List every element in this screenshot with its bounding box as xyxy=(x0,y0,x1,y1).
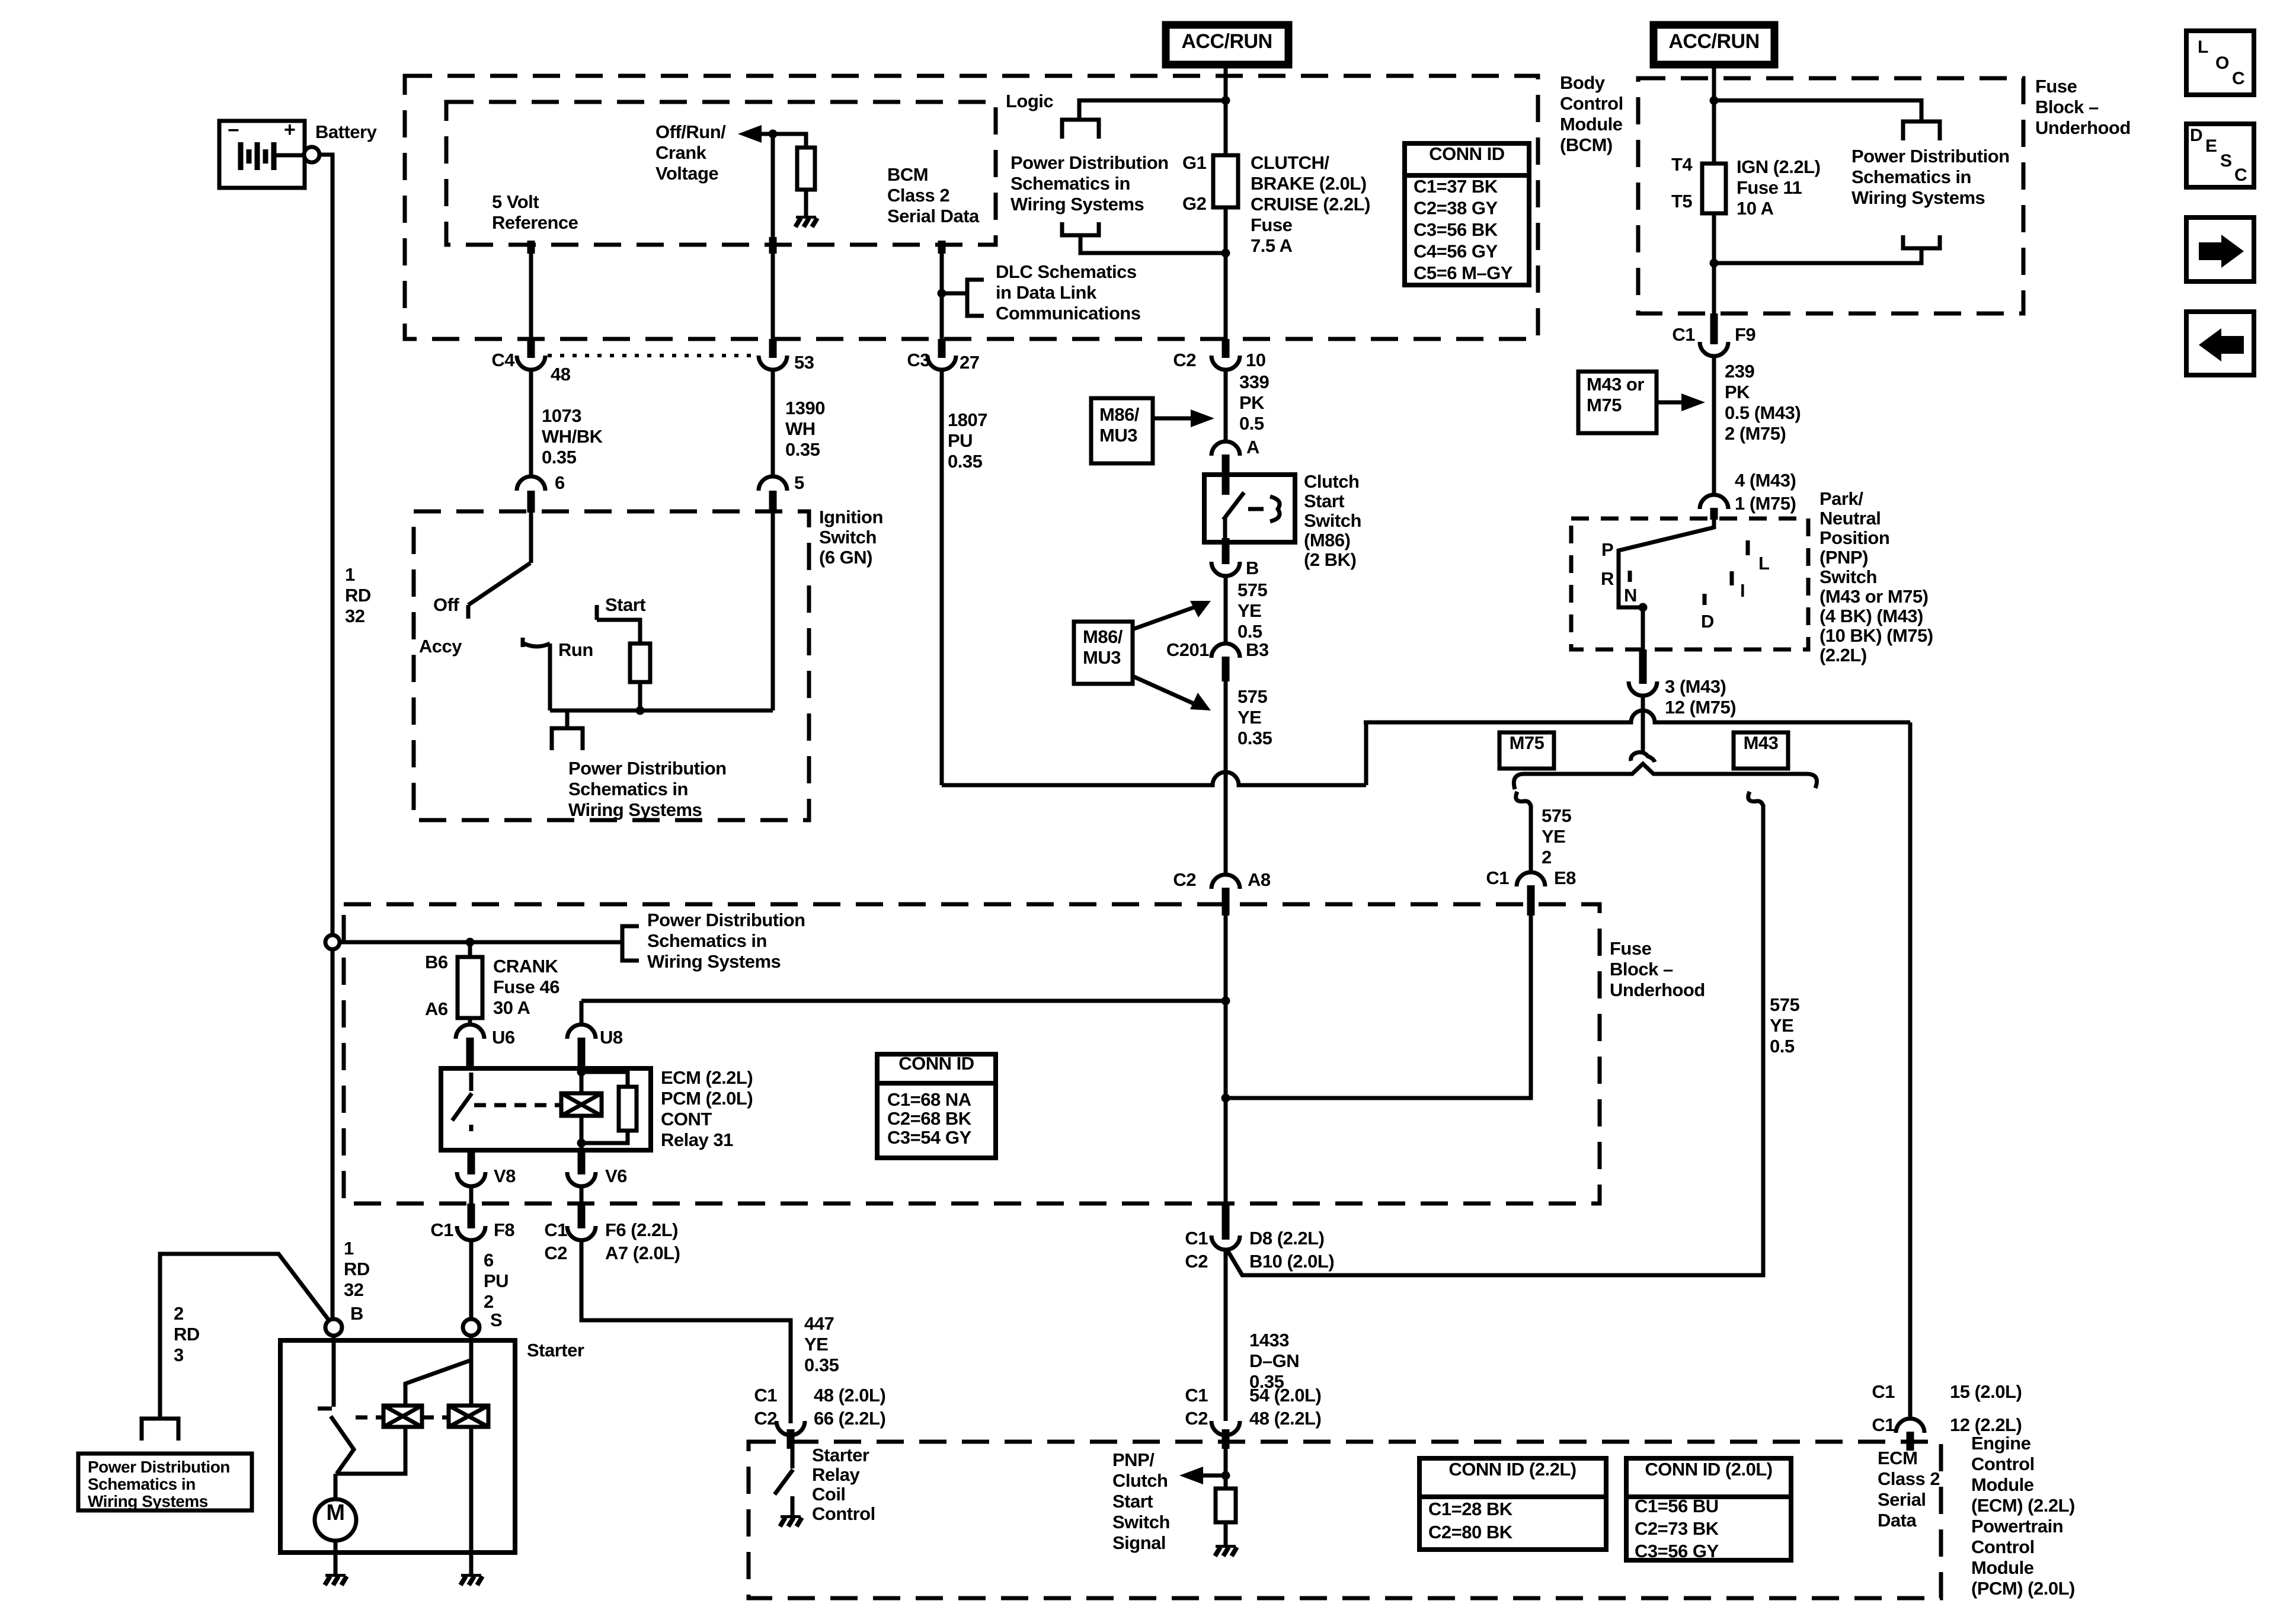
svg-text:Wiring Systems: Wiring Systems xyxy=(568,799,702,820)
box ignition switch (dashed) xyxy=(414,511,809,820)
ignition Run wire xyxy=(548,644,552,710)
svg-text:C1=68 NA: C1=68 NA xyxy=(887,1089,971,1110)
svg-text:0.35: 0.35 xyxy=(542,447,577,468)
svg-text:B: B xyxy=(350,1303,363,1324)
ground pnp signal xyxy=(1216,1545,1236,1548)
svg-text:Fuse: Fuse xyxy=(2035,76,2077,97)
svg-text:Voltage: Voltage xyxy=(655,163,718,184)
svg-text:O: O xyxy=(2215,53,2229,73)
svg-text:B6: B6 xyxy=(425,952,448,972)
connector C201-B3 xyxy=(1211,644,1240,658)
junction dot relay coil bottom xyxy=(577,1139,586,1148)
svg-text:YE: YE xyxy=(1237,600,1261,621)
box fuse block underhood top-right (dashed) xyxy=(1638,78,2023,313)
svg-text:54 (2.0L): 54 (2.0L) xyxy=(1249,1385,1321,1406)
starter relay coil contact wire xyxy=(791,1496,795,1516)
svg-text:C4=56 GY: C4=56 GY xyxy=(1414,241,1498,262)
svg-text:Fuse 46: Fuse 46 xyxy=(493,977,559,997)
wire 2 RD 3 branch xyxy=(160,1254,331,1419)
svg-text:YE: YE xyxy=(804,1334,828,1355)
ignition Accy contact xyxy=(521,638,525,647)
svg-text:Fuse 11: Fuse 11 xyxy=(1737,177,1802,198)
wire ACC/RUN to fuse G1 xyxy=(1224,65,1228,155)
connector C3-27 xyxy=(938,339,946,358)
svg-text:Power Distribution: Power Distribution xyxy=(1011,152,1169,173)
svg-text:G2: G2 xyxy=(1182,193,1206,214)
svg-text:A8: A8 xyxy=(1248,869,1271,890)
connector B xyxy=(1222,538,1230,564)
svg-text:B3: B3 xyxy=(1246,639,1269,660)
svg-text:Reference: Reference xyxy=(492,212,578,233)
svg-text:M: M xyxy=(326,1500,344,1525)
svg-text:WH: WH xyxy=(785,418,816,439)
wire 1807 PU xyxy=(940,370,944,785)
svg-text:10 A: 10 A xyxy=(1737,198,1773,219)
table CONN ID middle xyxy=(877,1054,996,1158)
svg-text:1073: 1073 xyxy=(542,405,581,426)
tag M86/MU3 upper xyxy=(1091,398,1153,463)
battery terminal circle xyxy=(304,147,319,162)
svg-text:Schematics in: Schematics in xyxy=(1011,173,1130,194)
svg-text:MU3: MU3 xyxy=(1083,647,1121,668)
wire 447 YE to starter relay coil xyxy=(581,1240,791,1423)
svg-text:575: 575 xyxy=(1770,994,1799,1015)
junction dot below IGN fuse xyxy=(1710,259,1719,268)
svg-text:6: 6 xyxy=(555,472,565,493)
svg-text:Starter: Starter xyxy=(812,1445,869,1465)
table CONN ID top-right xyxy=(1405,143,1529,285)
connector C1-F9 xyxy=(1710,313,1718,344)
svg-text:Control: Control xyxy=(1971,1454,2035,1474)
svg-text:Engine: Engine xyxy=(1971,1433,2031,1454)
svg-text:1433: 1433 xyxy=(1249,1330,1289,1350)
svg-text:32: 32 xyxy=(344,1279,363,1300)
starter switch contact tick xyxy=(318,1407,332,1411)
relay K1 ECM/PCM CONT Relay 31 box xyxy=(441,1068,651,1150)
svg-text:Starter: Starter xyxy=(527,1340,584,1361)
box 5-volt-reference / BCM internals (dashed) xyxy=(446,102,996,245)
svg-text:(PNP): (PNP) xyxy=(1819,547,1868,568)
relay switch pole xyxy=(469,1073,474,1091)
wire 1390 WH xyxy=(771,370,775,476)
svg-text:0.5: 0.5 xyxy=(1239,413,1264,434)
svg-text:C1: C1 xyxy=(1486,868,1509,888)
svg-text:YE: YE xyxy=(1542,826,1565,847)
curl M43 branch start xyxy=(1748,792,1763,806)
ground starter relay coil xyxy=(781,1515,801,1518)
svg-text:Switch: Switch xyxy=(819,527,877,548)
svg-text:in Data Link: in Data Link xyxy=(996,282,1097,303)
svg-text:Fuse: Fuse xyxy=(1251,215,1293,235)
svg-text:PK: PK xyxy=(1725,382,1750,402)
svg-text:12 (2.2L): 12 (2.2L) xyxy=(1950,1414,2022,1435)
svg-text:T4: T4 xyxy=(1671,154,1693,175)
svg-text:S: S xyxy=(2220,151,2232,171)
wire V6 down xyxy=(580,1186,584,1210)
relay switch blade xyxy=(452,1093,472,1121)
svg-text:Start: Start xyxy=(1304,491,1344,511)
svg-text:D–GN: D–GN xyxy=(1249,1350,1299,1371)
connector 5 xyxy=(759,476,787,491)
svg-text:CONN ID: CONN ID xyxy=(1429,143,1505,164)
wire V8 down xyxy=(469,1186,474,1210)
wire crank fuse to U6 xyxy=(468,1018,472,1025)
svg-text:0.35: 0.35 xyxy=(804,1355,839,1375)
svg-text:C2: C2 xyxy=(544,1243,567,1263)
resistor pnp signal pulldown xyxy=(1216,1489,1236,1522)
wire end curl option split xyxy=(1631,753,1655,762)
terminal circle S xyxy=(463,1319,479,1336)
switch clutch start (M86) box xyxy=(1204,475,1295,542)
arrow to off/run/crank voltage xyxy=(738,125,762,143)
starter dashes blade-coil xyxy=(356,1416,383,1420)
svg-text:Block –: Block – xyxy=(2035,97,2099,117)
starter relay coil switch wire xyxy=(791,1449,795,1468)
svg-text:L: L xyxy=(2198,37,2208,57)
bracket power distribution top (IGN fuse) xyxy=(1903,121,1940,140)
svg-text:V8: V8 xyxy=(494,1166,516,1186)
tag M75 xyxy=(1499,732,1554,769)
wire 239 PK xyxy=(1712,356,1716,495)
svg-text:+: + xyxy=(284,119,295,141)
bracket power distribution bottom (IGN fuse) xyxy=(1903,235,1940,248)
svg-text:PU: PU xyxy=(484,1270,509,1291)
svg-text:Block –: Block – xyxy=(1610,959,1673,980)
box fuse block underhood middle (dashed) xyxy=(344,904,1600,1204)
wire ignition output bus xyxy=(550,709,773,713)
starter motor M xyxy=(315,1499,356,1541)
starter relay coil switch blade xyxy=(775,1470,793,1494)
svg-text:Run: Run xyxy=(558,639,593,660)
svg-text:Schematics in: Schematics in xyxy=(568,779,688,799)
junction dot DLC branch xyxy=(938,289,946,298)
wire crank feed splice xyxy=(340,940,622,945)
svg-text:Schematics in: Schematics in xyxy=(647,930,767,951)
svg-text:C3=56 GY: C3=56 GY xyxy=(1635,1541,1719,1561)
svg-text:Control: Control xyxy=(1971,1537,2035,1557)
svg-text:D8 (2.2L): D8 (2.2L) xyxy=(1249,1228,1324,1249)
wire power distribution return to fuse xyxy=(1080,235,1226,253)
svg-text:Body: Body xyxy=(1560,72,1606,93)
svg-text:C3=56 BK: C3=56 BK xyxy=(1414,219,1498,240)
svg-text:Coil: Coil xyxy=(812,1484,846,1505)
svg-text:C4: C4 xyxy=(491,350,515,370)
svg-text:A: A xyxy=(1246,437,1259,457)
arrow pnp signal xyxy=(1187,1474,1226,1478)
starter switch blade xyxy=(331,1416,354,1474)
pnp contact tick I xyxy=(1730,571,1734,585)
wire fuse to C2-10 xyxy=(1224,207,1228,339)
svg-text:C5=6 M–GY: C5=6 M–GY xyxy=(1414,263,1513,283)
wire class2 bus to right (hop over pnp wire) xyxy=(1364,710,1910,722)
svg-text:3: 3 xyxy=(174,1345,184,1365)
svg-text:T5: T5 xyxy=(1671,191,1692,212)
fuse F2 IGN 10A xyxy=(1702,164,1726,213)
dotted fuse-block line C4-53 xyxy=(548,354,759,357)
wire DLC branch xyxy=(942,292,967,296)
connector C1C2 D8/B10 xyxy=(1222,1204,1230,1240)
ignition switch pole wire xyxy=(529,513,533,563)
svg-text:YE: YE xyxy=(1237,707,1261,728)
bracket power distribution (battery cable) xyxy=(142,1419,178,1441)
svg-text:Module: Module xyxy=(1971,1557,2034,1578)
svg-text:575: 575 xyxy=(1237,580,1267,600)
svg-text:P: P xyxy=(1601,539,1613,560)
svg-text:C2=68 BK: C2=68 BK xyxy=(887,1108,972,1129)
svg-text:S: S xyxy=(490,1310,502,1330)
svg-text:B10 (2.0L): B10 (2.0L) xyxy=(1249,1251,1334,1272)
wire IGN fuse to C1-F9 xyxy=(1712,213,1716,313)
junction dot right logic feed xyxy=(1710,96,1719,105)
pnp switch wire and wiper xyxy=(1619,520,1714,607)
svg-text:447: 447 xyxy=(804,1313,834,1334)
svg-text:C3=54 GY: C3=54 GY xyxy=(887,1127,971,1148)
svg-text:C1: C1 xyxy=(1872,1414,1895,1435)
curl M75 branch start xyxy=(1516,792,1531,806)
junction dot E8 branch xyxy=(1221,1094,1230,1103)
wire BCM class2 serial xyxy=(938,241,946,254)
ignition Accy-Run arc xyxy=(524,644,550,646)
box power distribution schematics (solid) xyxy=(78,1454,252,1510)
svg-text:27: 27 xyxy=(960,352,979,373)
svg-text:Relay: Relay xyxy=(812,1464,860,1485)
connector C1C2-F6A7 xyxy=(578,1204,586,1228)
wire pnp clutch start switch signal xyxy=(1224,1449,1228,1489)
connector U8 xyxy=(567,1025,596,1039)
table CONN ID (2.0L) xyxy=(1626,1458,1791,1560)
wire main inside fuse block xyxy=(1224,916,1228,1204)
clutch switch blade xyxy=(1223,492,1244,520)
svg-text:PCM (2.0L): PCM (2.0L) xyxy=(661,1088,753,1109)
svg-text:Fuse: Fuse xyxy=(1610,938,1652,959)
svg-text:30 A: 30 A xyxy=(493,997,530,1018)
tag M43 xyxy=(1734,732,1788,769)
svg-text:Module: Module xyxy=(1971,1474,2034,1495)
battery B1 xyxy=(219,121,305,188)
svg-text:C2: C2 xyxy=(1173,869,1196,890)
svg-text:(2.2L): (2.2L) xyxy=(1819,645,1867,665)
table CONN ID (2.2L) xyxy=(1419,1458,1606,1550)
connector 3(M43) 12(M75) xyxy=(1639,649,1647,684)
svg-text:C2=38 GY: C2=38 GY xyxy=(1414,198,1498,219)
arrow M86/MU3 down xyxy=(1133,676,1197,705)
bracket power distribution bottom (clutch fuse) xyxy=(1062,222,1099,235)
svg-text:RD: RD xyxy=(345,585,371,606)
wire relay resistor top xyxy=(581,1072,628,1087)
wire pnp resistor to ground xyxy=(1224,1522,1228,1545)
wire bus up-step xyxy=(1364,722,1368,785)
svg-text:U8: U8 xyxy=(600,1027,623,1048)
svg-text:ECM: ECM xyxy=(1878,1448,1917,1468)
tag M43 or M75 xyxy=(1578,372,1657,433)
svg-text:ACC/RUN: ACC/RUN xyxy=(1181,30,1272,53)
module box BCM (dashed) xyxy=(405,76,1538,339)
svg-text:CONN ID: CONN ID xyxy=(898,1053,974,1074)
wire to power distribution bracket right xyxy=(1714,101,1921,122)
svg-text:PU: PU xyxy=(948,430,973,451)
svg-text:Serial: Serial xyxy=(1878,1489,1926,1510)
starter solenoid branch xyxy=(405,1361,470,1406)
svg-text:M43: M43 xyxy=(1744,732,1779,753)
svg-text:C2: C2 xyxy=(1185,1408,1208,1429)
svg-text:Off: Off xyxy=(433,594,459,615)
svg-text:48 (2.2L): 48 (2.2L) xyxy=(1249,1408,1321,1429)
clutch switch pole stub xyxy=(1222,475,1230,495)
svg-text:F6 (2.2L): F6 (2.2L) xyxy=(605,1219,678,1240)
ignition switch blade xyxy=(468,563,530,605)
junction dot logic feed xyxy=(1221,96,1230,105)
svg-text:CRANK: CRANK xyxy=(493,956,559,977)
fuse F1 CLUTCH/BRAKE/CRUISE 7.5A xyxy=(1213,155,1238,207)
svg-text:2: 2 xyxy=(174,1303,184,1324)
svg-text:Wiring Systems: Wiring Systems xyxy=(647,951,781,972)
wire battery positive to starter B xyxy=(319,155,332,935)
svg-text:(10 BK) (M75): (10 BK) (M75) xyxy=(1819,625,1933,646)
ground starter solenoid xyxy=(461,1574,481,1577)
svg-text:Class 2: Class 2 xyxy=(887,185,949,206)
svg-text:Accy: Accy xyxy=(419,636,462,657)
svg-text:Signal: Signal xyxy=(1112,1532,1166,1553)
wire BCM 1390 output xyxy=(771,134,775,339)
svg-text:15 (2.0L): 15 (2.0L) xyxy=(1950,1381,2022,1402)
svg-text:Clutch: Clutch xyxy=(1112,1470,1168,1491)
wire 6 PU 2 to S xyxy=(469,1240,474,1319)
starter coil1 to motor wire xyxy=(337,1427,405,1474)
wire M75 branch 575 YE 2 xyxy=(1529,805,1533,872)
legend arrow left xyxy=(2186,312,2254,375)
connector C1C2 54/48 xyxy=(1211,1421,1240,1435)
power tag ACC/RUN right xyxy=(1654,25,1774,65)
svg-text:Switch: Switch xyxy=(1304,510,1361,531)
connector C2-10 xyxy=(1222,339,1230,358)
wire ACC/RUN right down xyxy=(1712,65,1716,164)
wire logic feed xyxy=(1079,101,1226,120)
svg-text:M86/: M86/ xyxy=(1099,404,1140,425)
connector V8 xyxy=(468,1150,475,1174)
svg-text:5 Volt: 5 Volt xyxy=(492,191,539,212)
svg-text:Underhood: Underhood xyxy=(1610,980,1705,1000)
svg-text:M75: M75 xyxy=(1510,732,1544,753)
wire 5V reference xyxy=(527,241,535,254)
svg-text:C1: C1 xyxy=(430,1219,453,1240)
svg-text:Start: Start xyxy=(1112,1491,1153,1512)
svg-text:R: R xyxy=(1601,568,1614,589)
svg-text:C: C xyxy=(2232,69,2244,88)
svg-text:Switch: Switch xyxy=(1819,566,1877,587)
starter S ground wire xyxy=(469,1427,474,1574)
starter B wire xyxy=(332,1336,336,1407)
svg-text:(BCM): (BCM) xyxy=(1560,135,1613,155)
wire 1807 PU to ECM (hop over clutch wire) xyxy=(942,772,1366,785)
svg-text:C1=28 BK: C1=28 BK xyxy=(1428,1499,1513,1519)
svg-text:YE: YE xyxy=(1770,1015,1793,1036)
fuse F3 CRANK 30A xyxy=(458,957,482,1018)
svg-text:ECM (2.2L): ECM (2.2L) xyxy=(661,1067,753,1088)
svg-text:PK: PK xyxy=(1239,392,1265,413)
box ECM/PCM bottom (dashed) xyxy=(749,1442,1941,1598)
svg-text:N: N xyxy=(1624,585,1637,606)
bracket power distribution (ignition) xyxy=(565,710,570,728)
connector 53 xyxy=(769,339,777,358)
svg-text:C: C xyxy=(2234,165,2247,185)
svg-text:M75: M75 xyxy=(1587,395,1622,415)
wire 1433 D-GN xyxy=(1224,1250,1228,1421)
svg-text:B: B xyxy=(1246,558,1259,578)
svg-text:WH/BK: WH/BK xyxy=(542,426,603,447)
svg-text:C2: C2 xyxy=(754,1408,777,1429)
svg-text:L: L xyxy=(1758,553,1769,574)
clutch switch mechanical dash xyxy=(1248,507,1264,511)
starter box xyxy=(280,1340,515,1553)
svg-text:−: − xyxy=(228,119,239,142)
bracket power distribution top (clutch fuse) xyxy=(1062,120,1099,139)
svg-text:(PCM) (2.0L): (PCM) (2.0L) xyxy=(1971,1578,2075,1599)
svg-text:F9: F9 xyxy=(1735,324,1755,345)
wire start resistor to bus xyxy=(638,682,642,710)
starter coil 1 box X xyxy=(383,1406,422,1427)
svg-text:I: I xyxy=(1740,580,1745,601)
svg-text:Logic: Logic xyxy=(1006,91,1053,111)
svg-text:C2: C2 xyxy=(1173,350,1196,370)
svg-text:3 (M43): 3 (M43) xyxy=(1665,676,1726,697)
connector U6 xyxy=(456,1025,484,1039)
option split brace xyxy=(1514,764,1817,789)
terminal circle B xyxy=(325,1319,342,1336)
svg-text:C201: C201 xyxy=(1166,639,1209,660)
svg-text:C1: C1 xyxy=(544,1219,567,1240)
svg-text:A6: A6 xyxy=(425,998,448,1019)
svg-text:Wiring Systems: Wiring Systems xyxy=(88,1492,208,1510)
svg-text:Park/: Park/ xyxy=(1819,488,1863,509)
wire 575 YE 0.5 xyxy=(1224,576,1228,644)
connector 4(M43) 1(M75) xyxy=(1700,495,1728,509)
wire 1073 WH/BK xyxy=(529,370,533,476)
svg-text:0.5: 0.5 xyxy=(1237,621,1262,642)
wire power distribution return (IGN fuse) xyxy=(1714,248,1921,263)
svg-text:1: 1 xyxy=(344,1238,354,1259)
svg-text:E: E xyxy=(2205,136,2217,156)
svg-text:Clutch: Clutch xyxy=(1304,471,1359,492)
svg-text:D: D xyxy=(1701,611,1714,632)
arrow M86/MU3 up xyxy=(1133,606,1197,629)
wire M43 branch 575 YE 0.5 xyxy=(1227,805,1763,1275)
svg-text:10: 10 xyxy=(1246,350,1265,370)
resistor ignition start bypass xyxy=(630,644,650,682)
legend box DESC xyxy=(2186,124,2254,187)
svg-text:C2: C2 xyxy=(1185,1251,1208,1272)
svg-text:Module: Module xyxy=(1560,114,1623,135)
svg-text:Power Distribution: Power Distribution xyxy=(568,758,727,779)
svg-text:Neutral: Neutral xyxy=(1819,508,1881,529)
svg-text:D: D xyxy=(2190,126,2202,145)
svg-text:Position: Position xyxy=(1819,527,1889,548)
junction dot start branch xyxy=(636,706,645,715)
junction dot relay coil top xyxy=(577,1068,586,1077)
svg-text:C1: C1 xyxy=(1185,1385,1208,1406)
svg-text:Schematics in: Schematics in xyxy=(1851,167,1971,187)
svg-text:DLC Schematics: DLC Schematics xyxy=(996,261,1137,282)
svg-text:2 (M75): 2 (M75) xyxy=(1725,423,1786,444)
svg-text:575: 575 xyxy=(1542,805,1571,826)
wire relay resistor bottom xyxy=(581,1131,628,1143)
connector A xyxy=(1211,441,1240,456)
svg-text:IGN (2.2L): IGN (2.2L) xyxy=(1737,156,1820,177)
svg-text:Wiring Systems: Wiring Systems xyxy=(1011,194,1144,215)
svg-text:Wiring Systems: Wiring Systems xyxy=(1851,187,1985,208)
wire 339 PK xyxy=(1224,370,1228,441)
svg-text:48: 48 xyxy=(551,364,571,385)
svg-text:Underhood: Underhood xyxy=(2035,117,2131,138)
